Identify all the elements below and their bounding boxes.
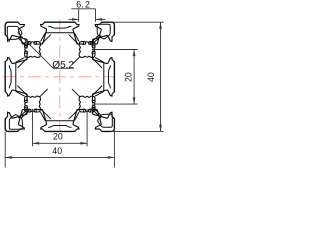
svg-text:6.2: 6.2 — [76, 0, 90, 10]
dim 40 bottom line — [5, 156, 114, 158]
T-slot, top face, slot A — [18, 22, 47, 44]
arrows 20 right — [133, 50, 136, 57]
dim 6.2 text shelf line — [71, 8, 95, 10]
arrows 20 bottom — [33, 142, 40, 145]
T-slot, right face, slot B — [93, 90, 115, 119]
T-slot, left face, slot A — [5, 90, 27, 119]
dim 20 right line — [133, 50, 135, 105]
arrows 40 right — [159, 22, 162, 29]
svg-text:Ø5.2: Ø5.2 — [52, 60, 74, 71]
dim 20 bottom line — [33, 142, 88, 144]
dim 6.2 arrow tails — [69, 18, 79, 20]
centerline horizontal — [1, 76, 115, 78]
corner cavity, bottom-left corner — [9, 110, 29, 130]
screw-channel teeth, top face slot A — [29, 41, 37, 44]
dim 40 right extension lines — [111, 21, 163, 23]
corner cavity, bottom-right corner — [93, 107, 112, 127]
inter-slot web walls, right face — [93, 58, 110, 96]
arrows 6.2 — [72, 18, 79, 21]
dim 20 bottom extension lines — [32, 109, 34, 146]
inter-slot web walls, left face — [9, 58, 26, 96]
centerline vertical — [59, 18, 61, 132]
T-slot, right face, slot A — [93, 35, 115, 64]
screw-channel teeth, bottom face slot A — [83, 109, 91, 112]
diagonal rib lines, top-right corner — [72, 36, 101, 65]
screw-channel teeth, bottom face slot B — [29, 109, 37, 112]
svg-text:40: 40 — [146, 72, 156, 82]
screw-channel teeth, right face slot B — [92, 100, 95, 108]
inter-slot web walls, bottom face — [41, 110, 79, 127]
screw-channel teeth, left face slot B — [24, 46, 27, 54]
screw boss bottom-right (M6 core hole area) — [79, 96, 95, 112]
screw-channel teeth, top face slot B — [83, 41, 91, 44]
screw boss top-left (M6 core hole area) — [25, 42, 41, 58]
dim 20 right extension lines — [92, 49, 138, 51]
corner cavity, top-right corner — [90, 24, 110, 44]
dim 40 bottom extension lines — [4, 132, 6, 168]
screw boss bottom-left (M6 core hole area) — [25, 96, 41, 112]
screw-channel teeth, right face slot A — [92, 46, 95, 54]
screw boss top-right (M6 core hole area) — [79, 42, 95, 58]
dim 6.2 extension lines — [78, 9, 80, 22]
corner cavity, top-left corner — [7, 26, 27, 46]
outer faces and corner fillets — [5, 22, 18, 25]
leader dia5.2 — [17, 32, 73, 68]
T-slot, left face, slot B — [5, 35, 27, 64]
T-slot, top face, slot B — [73, 22, 102, 44]
screw-channel teeth, left face slot A — [24, 100, 27, 108]
svg-text:20: 20 — [53, 132, 63, 142]
arrows 40 bottom — [5, 156, 12, 159]
T-slot, bottom face, slot A — [73, 110, 102, 132]
svg-text:40: 40 — [52, 146, 62, 156]
inter-slot web walls, top face — [41, 26, 79, 43]
svg-text:20: 20 — [123, 72, 133, 82]
diagonal rib lines, bottom-right corner — [72, 89, 101, 118]
T-slot, bottom face, slot B — [18, 110, 47, 132]
dim 40 right line — [160, 22, 162, 131]
diagonal rib lines, bottom-left corner — [19, 89, 48, 118]
